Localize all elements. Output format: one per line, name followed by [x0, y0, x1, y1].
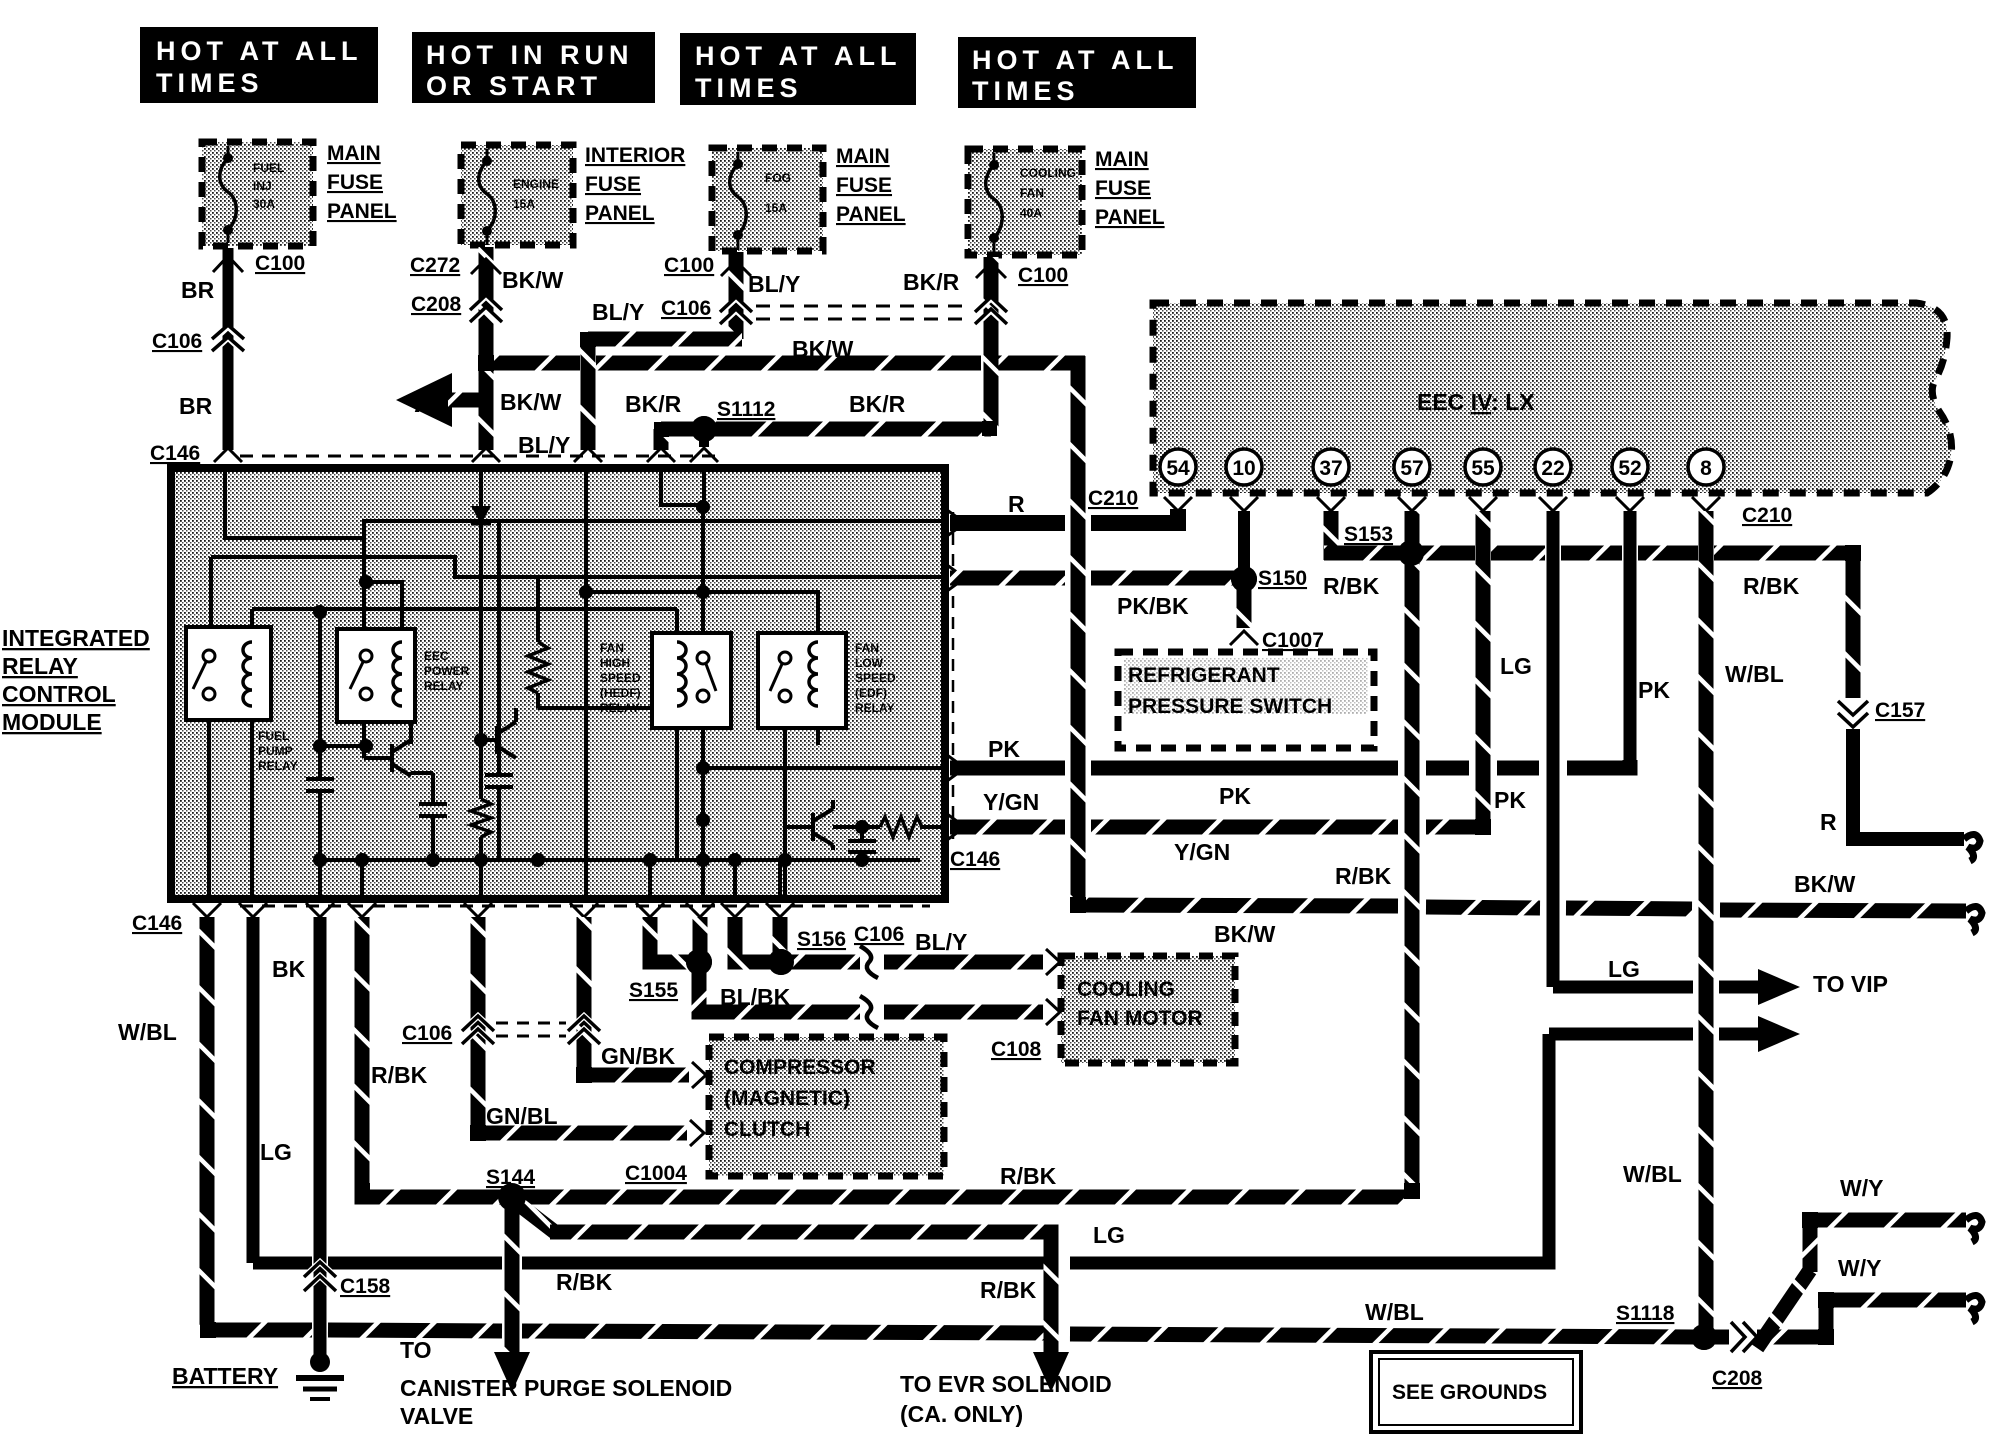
svg-text:GN/BL: GN/BL	[486, 1103, 558, 1129]
arrow TO VIP head	[1758, 969, 1800, 1005]
junction S144 dot	[498, 1183, 526, 1211]
svg-text:54: 54	[1166, 457, 1190, 480]
svg-text:BL/Y: BL/Y	[592, 299, 644, 325]
wire internal cap3 column	[497, 521, 501, 773]
wire exit S156 drop	[773, 917, 788, 962]
refrigerant pressure switch box	[1118, 652, 1374, 748]
svg-text:FAN: FAN	[855, 641, 879, 655]
see grounds box	[1371, 1352, 1581, 1432]
ground symbol battery	[310, 1352, 330, 1372]
svg-text:BL/Y: BL/Y	[518, 432, 570, 458]
dashed line C146 top	[240, 455, 718, 458]
svg-text:PRESSURE SWITCH: PRESSURE SWITCH	[1128, 695, 1332, 718]
wire S150 to C1007	[1237, 579, 1252, 628]
svg-text:MAIN: MAIN	[327, 142, 381, 165]
svg-text:CANISTER PURGE SOLENOID: CANISTER PURGE SOLENOID	[400, 1375, 732, 1401]
svg-text:55: 55	[1471, 457, 1495, 480]
svg-text:BR: BR	[181, 277, 215, 303]
svg-text:EEC IV: LX: EEC IV: LX	[1417, 389, 1535, 415]
svg-text:C146: C146	[150, 442, 200, 465]
wire internal stub entry	[702, 470, 706, 505]
svg-text:PK: PK	[988, 736, 1020, 762]
integrated relay control module box	[171, 468, 945, 899]
wire battery vertical	[314, 917, 327, 1355]
fuse FOG 15A	[712, 148, 823, 251]
pin 8	[1688, 449, 1724, 485]
wire internal row y708	[538, 706, 652, 710]
svg-text:R/BK: R/BK	[371, 1062, 428, 1088]
svg-text:BK/W: BK/W	[500, 389, 562, 415]
svg-text:LG: LG	[1500, 653, 1532, 679]
svg-text:R/BK: R/BK	[1323, 573, 1380, 599]
svg-text:HOT IN RUN: HOT IN RUN	[426, 40, 634, 70]
connector C108 brace lower	[860, 998, 878, 1026]
wire exit to S155	[650, 917, 688, 962]
svg-text:10: 10	[1232, 457, 1255, 480]
connector C106 on BR wire	[214, 328, 242, 352]
junction S1112	[691, 416, 717, 442]
svg-text:BK/R: BK/R	[849, 391, 906, 417]
wire internal HEDF coil bottom	[675, 706, 679, 860]
wire internal cap4	[860, 827, 864, 839]
wire pin 10 down	[1238, 511, 1250, 574]
svg-text:(CA. ONLY): (CA. ONLY)	[900, 1401, 1023, 1427]
wire to C208	[1712, 1330, 1729, 1345]
svg-text:MAIN: MAIN	[836, 145, 890, 168]
connector chevron pin 52	[1616, 497, 1644, 511]
wire R/BK vertical left	[355, 917, 370, 1190]
connector chevron PK exit	[947, 755, 965, 781]
svg-text:C146: C146	[950, 848, 1000, 871]
label INTERIOR FUSE PANEL	[585, 144, 685, 225]
label MAIN FUSE PANEL 3	[1095, 148, 1165, 229]
dashed line C146 bottom	[240, 905, 930, 908]
fuse ENGINE 15A	[461, 145, 573, 245]
connector chevrons module bottom exits	[193, 903, 221, 917]
wire internal BL/Y entry down	[584, 470, 588, 897]
svg-text:R/BK: R/BK	[1743, 573, 1800, 599]
fuse FUEL INJ 30A	[202, 142, 313, 246]
svg-text:W/BL: W/BL	[1725, 661, 1784, 687]
connector chevron pin 8	[1692, 497, 1720, 511]
wire internal T2 base	[481, 738, 497, 742]
wire LG bottom row	[253, 1257, 312, 1270]
junction S150 dot	[1231, 566, 1257, 592]
wire internal HEDF column	[701, 505, 705, 897]
connector chevron pin 54	[1164, 497, 1192, 511]
connector C208	[471, 297, 501, 323]
pin 52	[1612, 449, 1648, 485]
svg-text:EEC: EEC	[424, 649, 449, 663]
header box HOT AT ALL TIMES 3	[958, 37, 1196, 108]
svg-text:OR START: OR START	[426, 71, 602, 101]
capacitor C int2	[419, 802, 447, 806]
connector chevron pin 55	[1469, 497, 1497, 511]
svg-text:PUMP: PUMP	[258, 744, 293, 758]
wire R/BK to EVR	[550, 1232, 1051, 1352]
svg-text:C106: C106	[152, 330, 202, 353]
header box HOT AT ALL TIMES 2	[680, 33, 916, 105]
svg-text:C106: C106	[661, 297, 711, 320]
wire internal FP switch column	[209, 557, 213, 650]
resistor R int1 vertical	[528, 642, 548, 693]
svg-text:C210: C210	[1088, 487, 1138, 510]
wire BK/R horizontal S1112	[661, 422, 991, 437]
svg-text:HIGH: HIGH	[600, 656, 630, 670]
svg-text:C106: C106	[402, 1022, 452, 1045]
stub below S1112	[699, 429, 709, 447]
wire exit S155 drop	[693, 917, 708, 962]
wire LG to arrow 2	[1549, 1028, 1693, 1041]
wire internal R row staircase	[364, 521, 948, 538]
wire pin 8 down	[1699, 511, 1714, 1332]
svg-text:FUSE: FUSE	[836, 174, 892, 197]
svg-text:W/Y: W/Y	[1840, 1175, 1883, 1201]
svg-text:LOW: LOW	[855, 656, 884, 670]
wire W/BL bottom long	[207, 1323, 312, 1338]
wire Y/GN module to pin 55	[950, 820, 1065, 835]
svg-text:CLUTCH: CLUTCH	[724, 1118, 810, 1141]
svg-text:TO: TO	[400, 1337, 432, 1363]
svg-text:S1112: S1112	[717, 398, 775, 421]
label INTEGRATED RELAY CONTROL MODULE	[2, 625, 150, 735]
arrow A to other page	[396, 373, 452, 427]
junction S153 dot	[1398, 540, 1424, 566]
svg-text:C210: C210	[1742, 504, 1792, 527]
wire W/BL left vertical	[200, 917, 215, 1330]
svg-text:HOT AT ALL: HOT AT ALL	[695, 41, 901, 71]
svg-text:SPEED: SPEED	[855, 671, 896, 685]
wire BK/W horizontal to center	[479, 356, 580, 371]
connector C272	[471, 259, 501, 274]
diode	[471, 506, 491, 524]
wire internal FP switch bottom	[207, 700, 211, 897]
wire S144 diagonal branch	[517, 1203, 556, 1233]
svg-text:(MAGNETIC): (MAGNETIC)	[724, 1087, 850, 1110]
connector C1007	[1230, 631, 1258, 645]
svg-text:30A: 30A	[253, 197, 275, 211]
svg-text:BL/Y: BL/Y	[915, 929, 967, 955]
junction S155 dot	[686, 949, 712, 975]
svg-text:VALVE: VALVE	[400, 1403, 473, 1429]
connector C106 on GN/BL	[463, 1016, 493, 1043]
wire LG left vertical	[247, 917, 260, 1263]
wire internal row y746	[320, 744, 364, 748]
svg-text:W/BL: W/BL	[118, 1019, 177, 1045]
svg-text:POWER: POWER	[424, 664, 470, 678]
header box HOT IN RUN OR START	[412, 32, 655, 103]
wire BL/Y from S156	[781, 955, 862, 970]
svg-text:52: 52	[1618, 457, 1641, 480]
connector chevron pin 37	[1317, 497, 1345, 511]
wire BK/W corner right	[1078, 905, 1398, 906]
svg-text:15A: 15A	[765, 201, 787, 215]
resistor R int2 vertical	[471, 799, 491, 837]
svg-text:C1004: C1004	[625, 1162, 687, 1185]
svg-text:22: 22	[1541, 457, 1564, 480]
svg-text:FUSE: FUSE	[585, 173, 641, 196]
wire BK/R from fuse COOLING FAN	[984, 257, 999, 429]
svg-text:C100: C100	[664, 254, 714, 277]
connector chevron YGN exit	[947, 814, 965, 840]
cooling fan motor box	[1061, 956, 1235, 1063]
wire internal diode column low	[479, 524, 483, 799]
capacitor C int4	[848, 839, 876, 843]
wire internal FP coil top link	[250, 609, 254, 642]
svg-text:LG: LG	[1093, 1222, 1125, 1248]
connector chevron BL/Y at C146	[574, 448, 602, 462]
module right connector C146 dashed line	[952, 512, 955, 840]
svg-text:W/BL: W/BL	[1623, 1161, 1682, 1187]
svg-text:BK/W: BK/W	[502, 267, 564, 293]
connector C106 on GN/BK	[569, 1016, 599, 1043]
label FAN HIGH SPEED HEDF RELAY	[600, 641, 641, 715]
wire internal PK/BK row left	[211, 557, 948, 577]
svg-text:FOG: FOG	[765, 171, 791, 185]
svg-text:Y/GN: Y/GN	[1174, 839, 1230, 865]
svg-text:Y/GN: Y/GN	[983, 789, 1039, 815]
svg-text:C208: C208	[1712, 1367, 1763, 1390]
junction S156	[768, 949, 794, 975]
pin 54	[1160, 449, 1196, 485]
wire internal Y/GN row	[833, 825, 880, 829]
svg-text:BK/W: BK/W	[1794, 871, 1856, 897]
wire GN/BL to clutch	[478, 1126, 687, 1133]
connector chevron BK/W at C146	[472, 448, 500, 462]
transistor Q2	[497, 708, 516, 758]
svg-text:R: R	[1008, 491, 1025, 517]
junction S156 dot	[768, 949, 794, 975]
wire BK/W vertical center	[1071, 356, 1086, 905]
relay box EEC POWER RELAY	[337, 629, 415, 722]
svg-text:PK: PK	[1219, 783, 1251, 809]
wire S144 to canister purge	[505, 1197, 520, 1352]
wire internal EDF coil top link	[703, 592, 818, 641]
svg-text:C158: C158	[340, 1275, 391, 1298]
compressor magnetic clutch box	[709, 1037, 944, 1176]
svg-text:HOT AT ALL: HOT AT ALL	[972, 45, 1178, 75]
svg-text:LG: LG	[260, 1139, 292, 1165]
svg-text:CONTROL: CONTROL	[2, 681, 116, 707]
svg-text:INTEGRATED: INTEGRATED	[2, 625, 150, 651]
svg-text:BK/R: BK/R	[625, 391, 682, 417]
junction S153	[1398, 540, 1424, 566]
svg-text:(EDF): (EDF)	[855, 686, 887, 700]
svg-text:MODULE: MODULE	[2, 709, 102, 735]
wire BL/BK from S155	[699, 962, 862, 1012]
wire BR from fuse FUEL INJ	[223, 248, 234, 450]
wire R below C157	[1853, 729, 1964, 839]
svg-text:SPEED: SPEED	[600, 671, 641, 685]
connector chevron pin 10	[1230, 497, 1258, 511]
connector chevron R exit	[947, 510, 965, 536]
svg-text:BK/W: BK/W	[1214, 921, 1276, 947]
connector C106 brace upper	[860, 948, 878, 976]
wire internal T3 base	[785, 825, 813, 829]
svg-text:TIMES: TIMES	[156, 68, 264, 98]
wire internal res1 column	[536, 577, 540, 642]
svg-text:INTERIOR: INTERIOR	[585, 144, 685, 167]
wire internal bus	[320, 858, 920, 862]
svg-text:C106: C106	[854, 923, 904, 946]
svg-text:37: 37	[1319, 457, 1342, 480]
wire internal BR entry staircase	[225, 470, 364, 538]
connector C158	[305, 1262, 335, 1290]
wire GN/BK to clutch	[584, 1068, 689, 1075]
label FAN LOW SPEED EDF RELAY	[855, 641, 896, 715]
svg-text:R/BK: R/BK	[1000, 1163, 1057, 1189]
svg-text:RELAY: RELAY	[855, 701, 895, 715]
svg-text:INJ: INJ	[253, 179, 272, 193]
junction S1112 dot	[691, 416, 717, 442]
svg-text:BK/R: BK/R	[903, 269, 960, 295]
svg-text:15A: 15A	[513, 197, 535, 211]
wire internal PK row	[703, 766, 948, 770]
wire internal EEC coil bottom	[400, 706, 404, 722]
connector chevron PK/BK exit	[947, 565, 965, 591]
wire PK module to pin 52	[950, 761, 1065, 776]
svg-text:W/BL: W/BL	[1365, 1299, 1424, 1325]
svg-text:R/BK: R/BK	[556, 1269, 613, 1295]
svg-text:S155: S155	[629, 979, 678, 1002]
connector C208 right	[1731, 1322, 1757, 1352]
svg-text:TIMES: TIMES	[695, 73, 803, 103]
pin 37	[1313, 449, 1349, 485]
wire internal FP coil bottom	[250, 706, 254, 897]
relay box FAN LOW SPEED EDF RELAY	[758, 633, 846, 728]
wire PK/BK module to S150	[950, 571, 1065, 586]
wire LG pin22 to VIP	[1553, 981, 1693, 994]
wire internal EEC sw bottom	[362, 700, 366, 758]
wire internal bus drops	[360, 860, 364, 897]
svg-text:C100: C100	[1018, 264, 1068, 287]
svg-text:PANEL: PANEL	[585, 202, 655, 225]
svg-text:8: 8	[1700, 457, 1712, 480]
wire internal cap1 column	[318, 609, 322, 777]
wire W/Y upper diagonal	[1757, 1270, 1810, 1348]
svg-text:R: R	[1820, 809, 1837, 835]
wire internal EDF coil bottom	[816, 706, 820, 745]
svg-text:S153: S153	[1344, 523, 1393, 546]
wire internal cap2 column	[431, 773, 435, 802]
svg-text:40A: 40A	[1020, 206, 1042, 220]
wire internal to EEC relay switch	[362, 538, 366, 652]
svg-text:FAN MOTOR: FAN MOTOR	[1077, 1007, 1203, 1030]
svg-text:PK/BK: PK/BK	[1117, 593, 1189, 619]
svg-text:COOLING: COOLING	[1077, 978, 1175, 1001]
svg-text:GN/BK: GN/BK	[601, 1043, 676, 1069]
svg-text:BK/W: BK/W	[792, 336, 854, 362]
header box HOT AT ALL TIMES 1	[140, 27, 378, 103]
svg-text:FAN: FAN	[1020, 186, 1044, 200]
svg-text:REFRIGERANT: REFRIGERANT	[1128, 664, 1280, 687]
connector C100 on BR wire	[213, 256, 243, 272]
svg-text:C108: C108	[991, 1038, 1042, 1061]
wire internal diode branch	[479, 470, 483, 506]
svg-text:HOT AT ALL: HOT AT ALL	[156, 36, 362, 66]
svg-text:TO VIP: TO VIP	[1813, 971, 1888, 997]
svg-text:COMPRESSOR: COMPRESSOR	[724, 1056, 876, 1079]
svg-text:S150: S150	[1258, 567, 1307, 590]
junction S150	[1231, 566, 1257, 592]
svg-text:BK: BK	[272, 956, 306, 982]
svg-text:FAN: FAN	[600, 641, 624, 655]
junction S1118 dot	[1691, 1324, 1717, 1350]
label FUEL PUMP RELAY	[258, 729, 298, 773]
wire internal row y592	[586, 590, 703, 594]
transistor Q3	[813, 800, 833, 850]
svg-text:FUEL: FUEL	[258, 729, 289, 743]
svg-text:PANEL: PANEL	[327, 200, 397, 223]
wire R/BK S153 row	[1324, 546, 1403, 561]
svg-text:57: 57	[1400, 457, 1423, 480]
wire internal HEDF coil top	[675, 609, 679, 641]
svg-text:RELAY: RELAY	[2, 653, 78, 679]
label EEC POWER RELAY	[424, 649, 470, 693]
svg-text:ENGINE: ENGINE	[513, 177, 559, 191]
svg-text:R/BK: R/BK	[1335, 863, 1392, 889]
svg-text:C272: C272	[410, 254, 460, 277]
wire BL/Y corner to module	[588, 332, 742, 347]
svg-text:PANEL: PANEL	[1095, 206, 1165, 229]
connector chevron BK/R at C146	[647, 448, 675, 462]
svg-text:BL/Y: BL/Y	[748, 271, 800, 297]
fuse COOLING FAN 40A	[968, 149, 1082, 255]
svg-text:S1118: S1118	[1616, 1302, 1675, 1325]
wire internal T1 base	[364, 756, 392, 760]
wire pin 22 down	[1547, 511, 1560, 987]
label MAIN FUSE PANEL 1	[327, 142, 397, 223]
svg-text:COOLING: COOLING	[1020, 166, 1076, 180]
svg-text:A: A	[414, 386, 436, 419]
wire internal EEC coil top link	[364, 582, 402, 642]
svg-text:C100: C100	[255, 252, 305, 275]
svg-text:BL/BK: BL/BK	[720, 984, 791, 1010]
pin 10	[1226, 449, 1262, 485]
svg-text:TIMES: TIMES	[972, 76, 1080, 106]
hook BK/W end	[1966, 906, 1982, 933]
relay box FAN HIGH SPEED HEDF RELAY	[652, 633, 731, 728]
dashed jumper between C106	[496, 1022, 566, 1025]
svg-text:TO EVR SOLENOID: TO EVR SOLENOID	[900, 1371, 1112, 1397]
svg-text:R/BK: R/BK	[980, 1277, 1037, 1303]
connector C157	[1838, 701, 1868, 727]
connector C100 on BK/R	[976, 263, 1006, 278]
svg-text:FUSE: FUSE	[1095, 177, 1151, 200]
connector C106 on BL/Y	[721, 299, 751, 325]
svg-text:SEE GROUNDS: SEE GROUNDS	[1392, 1381, 1547, 1404]
relay box FUEL PUMP RELAY	[186, 627, 271, 720]
svg-text:BATTERY: BATTERY	[172, 1363, 278, 1389]
wire pin 55 down	[1476, 511, 1491, 827]
wire pin 57 down	[1405, 511, 1420, 1190]
svg-text:(HEDF): (HEDF)	[600, 686, 641, 700]
resistor R int3 horizontal	[880, 817, 922, 837]
wire internal EDF switch bottom	[783, 700, 787, 897]
svg-text:RELAY: RELAY	[600, 701, 640, 715]
svg-text:C208: C208	[411, 293, 462, 316]
wire GN/BL vertical	[471, 917, 486, 1133]
svg-text:C146: C146	[132, 912, 182, 935]
junction S1118	[1691, 1324, 1717, 1350]
svg-text:MAIN: MAIN	[1095, 148, 1149, 171]
junction S155	[686, 949, 712, 975]
dashed jumper C106 to BK/R wire	[756, 305, 972, 308]
svg-text:PK: PK	[1494, 787, 1526, 813]
connector C106 on BK/R	[976, 299, 1006, 325]
wire BL/Y from fuse FOG	[729, 252, 744, 339]
wire pin 52 down	[1624, 511, 1637, 768]
